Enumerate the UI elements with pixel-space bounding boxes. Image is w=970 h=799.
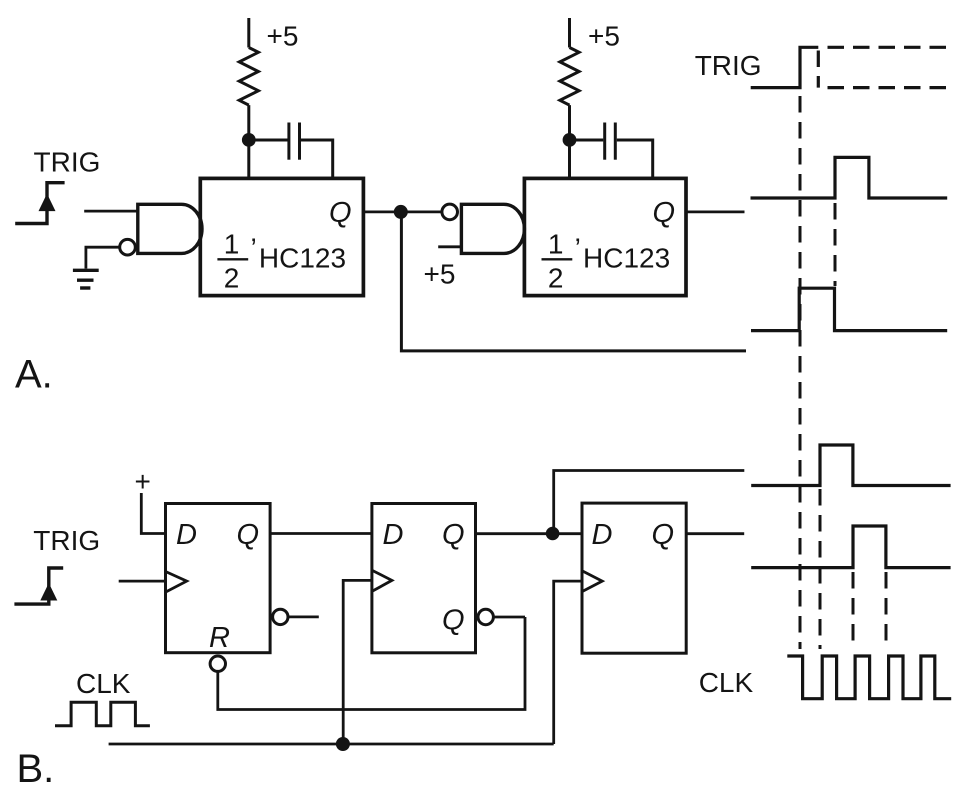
rising-edge trigger symbol (part A) — [15, 183, 64, 224]
wire node to C2 — [570, 139, 604, 142]
wire V+ feed to resistor R1 — [247, 18, 250, 48]
fraction bar (U2) — [542, 258, 573, 260]
capacitor C1 — [289, 123, 300, 160]
svg-text:CLK: CLK — [76, 668, 131, 699]
dashed timing line t4 — [885, 572, 888, 649]
svg-text:1: 1 — [224, 229, 240, 260]
svg-text:B.: B. — [17, 747, 55, 791]
wire FF1 Q-bar stub — [288, 616, 319, 619]
wire FF2 Q-bar stub — [493, 616, 525, 619]
wire FF1 reset to FF2 Q-bar — [218, 617, 525, 710]
flip-flop FF3 box — [582, 503, 686, 653]
waveform TRIG dashed continuation — [818, 47, 947, 87]
label 1/2 'HC123 (U2) — [548, 229, 670, 294]
svg-text:A.: A. — [15, 353, 53, 397]
waveform TRIG solid — [751, 47, 819, 87]
wire FF1 Q to FF2 D — [270, 532, 372, 535]
nand gate G2 — [461, 204, 524, 253]
flip-flop FF2 box — [372, 504, 476, 653]
svg-text:2: 2 — [548, 262, 564, 293]
wire + to D1 — [141, 493, 165, 534]
fraction bar (U1) — [217, 258, 248, 260]
svg-text:+5: +5 — [424, 259, 456, 290]
node R2/C2 junction — [563, 133, 577, 147]
svg-text:+5: +5 — [588, 21, 620, 52]
waveform CLK input symbol — [55, 702, 150, 726]
waveform Q2 (one-shot 2) — [751, 157, 948, 198]
wire CLK to FF2 clock — [343, 580, 372, 744]
wire G1 input B to ground — [86, 247, 120, 268]
dashed timing line t3 — [852, 572, 855, 649]
clock triangle FF3 — [582, 571, 602, 592]
one-shot U1 box — [200, 178, 363, 295]
svg-text:Q: Q — [329, 197, 352, 229]
rising-edge trigger symbol (part B) — [14, 568, 63, 604]
clock triangle FF1 — [166, 572, 187, 593]
clock triangle FF2 — [372, 570, 392, 591]
wire R1 to U1 top — [247, 105, 250, 180]
one-shot U2 box — [524, 178, 686, 295]
node FF2 Q junction — [546, 527, 560, 541]
svg-text:HC123: HC123 — [583, 243, 670, 274]
wire U1 Q output — [363, 210, 442, 213]
bubble on G1 input B — [120, 239, 136, 255]
svg-text:R: R — [209, 622, 230, 654]
dashed timing line t0 — [799, 96, 802, 649]
nand gate G1 — [138, 204, 202, 253]
bubble FF2 Q-bar — [478, 609, 493, 624]
dashed timing line t2 — [819, 489, 822, 649]
wire Q1 down to timing row 3 — [401, 212, 746, 351]
svg-text:2: 2 — [224, 262, 240, 293]
wire node to C1 — [249, 139, 288, 142]
svg-text:D: D — [383, 519, 404, 551]
bubble on G2 input A — [442, 204, 458, 220]
svg-text:D: D — [176, 519, 197, 551]
node R1/C1 junction — [242, 133, 256, 147]
svg-text:TRIG: TRIG — [34, 146, 101, 177]
waveform Q (FF3 timing) — [751, 526, 950, 568]
flip-flop FF1 box — [166, 504, 271, 653]
wire FF2 Q to FF3 D — [476, 532, 583, 535]
label 1/2 'HC123 (U1) — [224, 229, 346, 294]
svg-text:+5: +5 — [267, 21, 299, 52]
capacitor C2 — [605, 123, 616, 160]
wire V+ feed to resistor R2 — [568, 18, 571, 48]
wire C1 to U1 top — [301, 140, 333, 180]
svg-text:TRIG: TRIG — [33, 525, 100, 556]
wire FF2 Q up to timing row 4 — [554, 471, 745, 534]
wire CLK to FF3 clock — [554, 581, 582, 744]
wire G2 input B stub — [438, 245, 461, 248]
resistor R2 — [560, 48, 579, 106]
svg-text:D: D — [592, 519, 613, 551]
wire TRIG to gate G1 input A — [84, 210, 138, 213]
ground — [73, 270, 99, 288]
waveform CLK (timing) — [787, 656, 951, 699]
node Q1 junction — [394, 205, 408, 219]
svg-text:’: ’ — [251, 233, 257, 264]
svg-text:HC123: HC123 — [259, 243, 346, 274]
svg-text:CLK: CLK — [699, 667, 754, 698]
wire CLK bus — [109, 743, 554, 746]
bubble FF1 Q-bar — [273, 609, 288, 624]
wire U2 Q output to timing row 2 — [686, 210, 745, 213]
svg-text:Q: Q — [652, 519, 675, 551]
wire TRIG to FF1 clock — [119, 580, 166, 583]
svg-text:+: + — [135, 466, 151, 497]
svg-text:1: 1 — [548, 229, 564, 260]
svg-text:Q: Q — [442, 519, 465, 551]
wire R2 to U2 top — [568, 105, 571, 180]
svg-text:Q: Q — [653, 197, 676, 229]
svg-text:TRIG: TRIG — [695, 50, 762, 81]
svg-text:’: ’ — [575, 233, 581, 264]
bubble FF1 reset — [210, 656, 225, 671]
dashed timing line t1 — [834, 203, 837, 286]
wire FF3 Q to timing row 5 — [686, 532, 744, 535]
waveform Q1 (one-shot 1) — [751, 288, 947, 330]
wire C2 to U2 top — [617, 140, 653, 180]
waveform Q (FF2 timing) — [751, 445, 950, 486]
resistor R1 — [239, 48, 258, 106]
svg-text:Q: Q — [237, 519, 260, 551]
node CLK junction — [336, 737, 350, 751]
svg-text:Q: Q — [442, 604, 465, 636]
